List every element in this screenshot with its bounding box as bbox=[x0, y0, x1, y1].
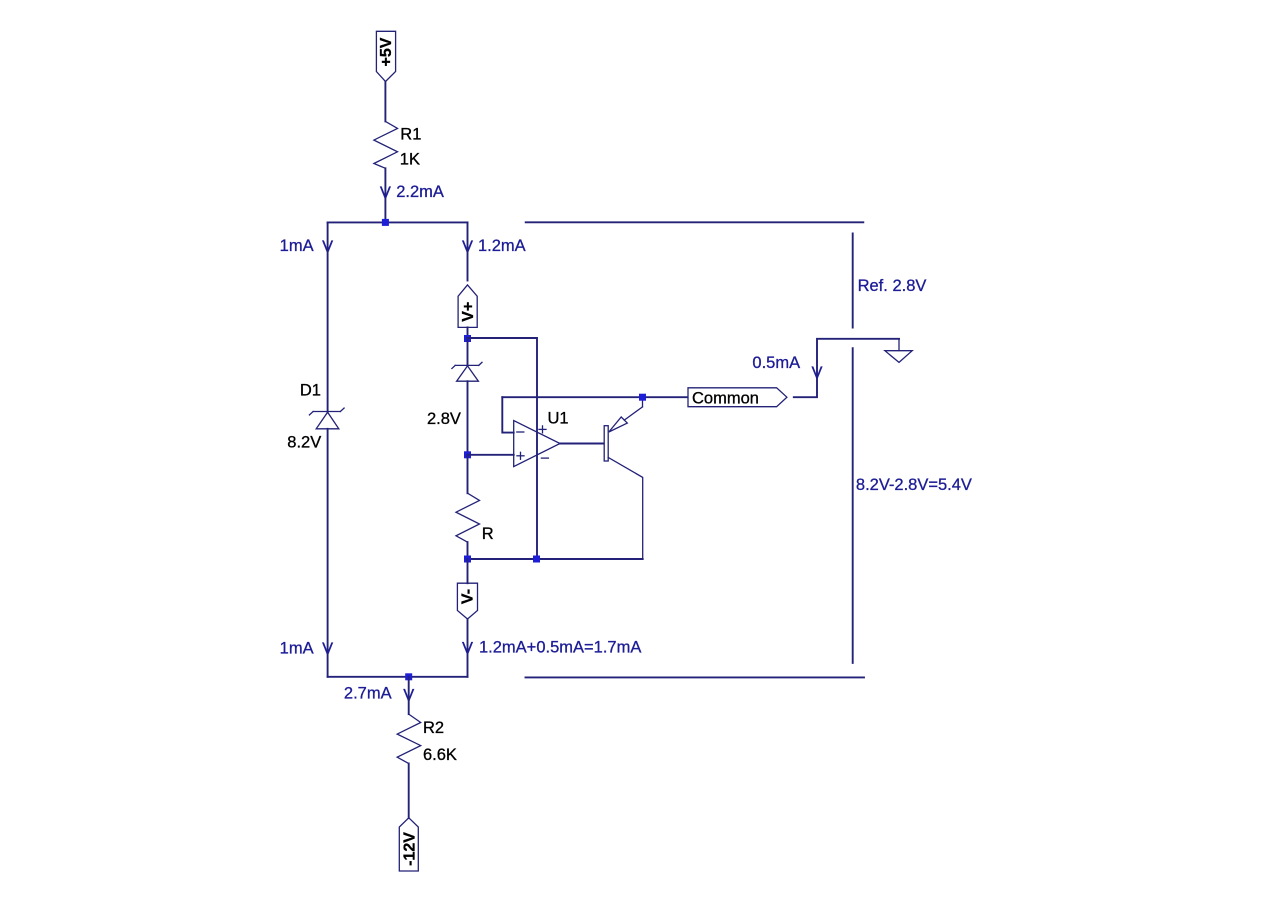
wire left branch down bbox=[327, 222, 329, 411]
zener 2.8V bbox=[427, 338, 482, 428]
svg-text:V: V bbox=[462, 639, 473, 657]
svg-text:U1: U1 bbox=[548, 410, 569, 428]
junction R bottom node bbox=[464, 556, 471, 563]
resistor R bbox=[456, 493, 494, 543]
resistor R2 bbox=[397, 714, 457, 764]
svg-text:6.6K: 6.6K bbox=[423, 746, 457, 764]
svg-text:-12V: -12V bbox=[401, 832, 418, 866]
annotation bracket bottom line bbox=[526, 676, 865, 678]
label 2.7mA arrow bbox=[344, 685, 414, 705]
svg-text:1mA: 1mA bbox=[280, 639, 314, 657]
transistor Q1 bbox=[604, 397, 643, 559]
svg-text:R: R bbox=[482, 525, 494, 543]
wire minus input feedback bbox=[502, 397, 513, 432]
zener D1 bbox=[287, 381, 344, 451]
svg-text:V: V bbox=[322, 640, 333, 658]
wire R2 to -12V bbox=[408, 764, 410, 819]
port Common bbox=[688, 388, 787, 408]
svg-text:V: V bbox=[811, 364, 822, 382]
label 0.5mA current arrow bbox=[752, 354, 822, 382]
svg-text:Ref. 2.8V: Ref. 2.8V bbox=[858, 277, 927, 295]
label 1.7mA sum arrow bbox=[462, 638, 641, 657]
svg-text:2.7mA: 2.7mA bbox=[344, 685, 392, 703]
label 1mA top arrow bbox=[280, 237, 333, 256]
bottom rail bbox=[328, 676, 468, 678]
wire node to R2 bbox=[408, 677, 410, 714]
svg-text:V: V bbox=[380, 184, 391, 202]
wire R1 to top node bbox=[384, 168, 386, 222]
wire top rail bbox=[328, 221, 468, 223]
wire plus node to R bbox=[467, 455, 469, 493]
power port V+ bbox=[458, 285, 477, 328]
stub V+ to node bbox=[467, 327, 469, 338]
svg-text:8.2V: 8.2V bbox=[287, 434, 321, 452]
svg-text:Common: Common bbox=[692, 390, 759, 408]
svg-text:1.2mA+0.5mA=1.7mA: 1.2mA+0.5mA=1.7mA bbox=[479, 638, 641, 656]
label 1.2mA arrow bbox=[462, 237, 526, 256]
power port +5V bbox=[376, 31, 395, 81]
wire 1.2mA branch bbox=[467, 222, 469, 280]
label 1mA bottom arrow bbox=[280, 639, 333, 658]
junction bottom node bbox=[405, 673, 412, 680]
junction emitter node bbox=[639, 394, 646, 401]
svg-text:0.5mA: 0.5mA bbox=[752, 354, 800, 372]
svg-text:R2: R2 bbox=[423, 719, 444, 737]
svg-text:1mA: 1mA bbox=[280, 237, 314, 255]
annotation bracket top line bbox=[526, 221, 864, 223]
wire node to V- port bbox=[467, 559, 469, 583]
ground bbox=[885, 339, 912, 363]
wire plus input bbox=[468, 454, 514, 456]
junction top node bbox=[382, 219, 389, 226]
wire output row to Common bbox=[502, 396, 687, 398]
svg-text:2.8V: 2.8V bbox=[427, 410, 461, 428]
wire V+ node to op-amp supply rail bbox=[468, 338, 538, 559]
wire D1 to bottom rail bbox=[327, 429, 329, 677]
svg-text:V+: V+ bbox=[460, 302, 477, 322]
bottom mid rail bbox=[468, 558, 643, 560]
wire zener to plus node bbox=[467, 381, 469, 455]
svg-text:2.2mA: 2.2mA bbox=[396, 183, 444, 201]
wire R to bottom mid rail bbox=[467, 542, 469, 559]
wire +5V to R1 bbox=[384, 82, 386, 122]
wire Common to ground bbox=[794, 339, 899, 397]
junction plus input node bbox=[464, 451, 471, 458]
junction V+ node bbox=[464, 335, 471, 342]
label 2.2mA current arrow bbox=[380, 183, 444, 202]
annotation bracket vertical lower bbox=[852, 348, 854, 663]
power port V- bbox=[457, 583, 477, 619]
wire op-amp output to Q1 base bbox=[560, 443, 604, 445]
resistor R1 bbox=[374, 121, 421, 168]
op-amp U1 bbox=[514, 410, 569, 467]
svg-text:+5V: +5V bbox=[378, 37, 395, 66]
wire V- to bottom rail bbox=[467, 619, 469, 677]
junction op-amp supply bottom node bbox=[533, 556, 540, 563]
svg-text:8.2V-2.8V=5.4V: 8.2V-2.8V=5.4V bbox=[856, 476, 972, 494]
svg-text:1K: 1K bbox=[400, 151, 420, 169]
power port -12V bbox=[399, 818, 418, 871]
svg-text:V-: V- bbox=[460, 589, 477, 604]
svg-text:R1: R1 bbox=[400, 125, 421, 143]
svg-text:D1: D1 bbox=[300, 381, 321, 399]
annotation bracket vertical upper bbox=[852, 234, 854, 328]
svg-text:1.2mA: 1.2mA bbox=[478, 237, 526, 255]
